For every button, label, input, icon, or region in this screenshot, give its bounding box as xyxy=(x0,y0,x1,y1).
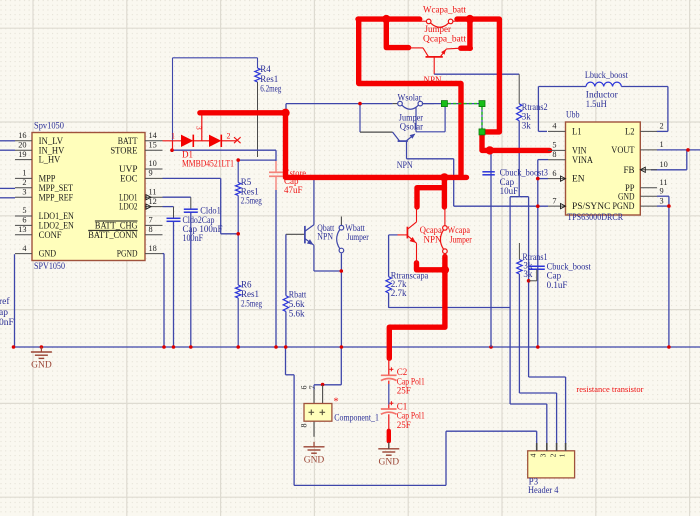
svg-text:R4: R4 xyxy=(260,64,271,74)
svg-text:15: 15 xyxy=(149,140,157,149)
svg-text:Wcapa_batt: Wcapa_batt xyxy=(423,5,466,15)
svg-text:0.1uF: 0.1uF xyxy=(547,280,568,290)
svg-text:NPN: NPN xyxy=(424,235,443,245)
svg-text:Rbatt: Rbatt xyxy=(289,289,307,299)
svg-text:NPN: NPN xyxy=(317,232,333,242)
svg-text:9: 9 xyxy=(660,186,664,195)
svg-text:EOC: EOC xyxy=(120,175,137,185)
svg-text:Cldo1: Cldo1 xyxy=(200,206,221,216)
svg-text:Qcapa_batt: Qcapa_batt xyxy=(423,33,467,43)
svg-text:20: 20 xyxy=(18,140,26,149)
svg-text:0nF: 0nF xyxy=(0,318,14,328)
svg-text:R6: R6 xyxy=(241,280,252,290)
svg-text:6.2meg: 6.2meg xyxy=(260,84,281,94)
svg-text:MPP_REF: MPP_REF xyxy=(39,193,74,203)
svg-text:3k: 3k xyxy=(523,269,533,279)
svg-text:1: 1 xyxy=(22,169,26,178)
svg-text:STORE: STORE xyxy=(110,146,137,156)
svg-text:16: 16 xyxy=(18,131,26,140)
svg-text:PS/SYNC: PS/SYNC xyxy=(572,202,610,212)
svg-text:Jumper: Jumper xyxy=(450,234,472,244)
svg-text:GND: GND xyxy=(39,250,57,260)
svg-text:18: 18 xyxy=(149,244,157,253)
svg-text:PGND: PGND xyxy=(117,250,138,260)
svg-text:6: 6 xyxy=(552,169,556,178)
svg-text:9: 9 xyxy=(149,169,153,178)
svg-text:7: 7 xyxy=(308,385,317,389)
svg-text:GND: GND xyxy=(31,361,52,371)
svg-text:7: 7 xyxy=(552,196,556,205)
svg-text:10: 10 xyxy=(149,159,157,168)
svg-text:NPN: NPN xyxy=(424,75,443,85)
svg-text:10: 10 xyxy=(660,160,668,169)
svg-text:3: 3 xyxy=(539,453,548,457)
svg-text:2: 2 xyxy=(548,453,557,457)
svg-text:100nF: 100nF xyxy=(183,234,204,244)
svg-text:TPS63000DRCR: TPS63000DRCR xyxy=(567,213,624,223)
svg-text:FB: FB xyxy=(624,166,635,176)
svg-text:Qsolar: Qsolar xyxy=(400,123,424,133)
svg-text:1.5uH: 1.5uH xyxy=(586,100,607,110)
svg-text:6: 6 xyxy=(22,216,26,225)
svg-text:VINA: VINA xyxy=(572,156,593,166)
svg-text:*: * xyxy=(334,397,339,408)
svg-text:1: 1 xyxy=(557,453,566,457)
svg-text:LDO2: LDO2 xyxy=(119,203,138,213)
svg-text:3: 3 xyxy=(22,187,26,196)
svg-text:3k: 3k xyxy=(522,120,532,130)
svg-text:Component_1: Component_1 xyxy=(334,413,379,423)
svg-text:Lbuck_boost: Lbuck_boost xyxy=(585,71,628,81)
svg-text:L_HV: L_HV xyxy=(39,156,61,166)
svg-text:GND: GND xyxy=(304,455,325,465)
svg-text:2.5meg: 2.5meg xyxy=(241,196,262,206)
svg-text:resistance transistor: resistance transistor xyxy=(576,384,643,394)
svg-text:2: 2 xyxy=(22,178,26,187)
svg-text:8: 8 xyxy=(149,225,153,234)
svg-text:10uF: 10uF xyxy=(500,186,519,196)
svg-text:Jumper: Jumper xyxy=(425,24,452,34)
svg-text:5: 5 xyxy=(552,141,556,150)
svg-text:Ubb: Ubb xyxy=(566,110,580,120)
svg-text:L2: L2 xyxy=(625,128,635,138)
svg-text:25F: 25F xyxy=(397,386,411,396)
svg-text:5.6k: 5.6k xyxy=(289,308,305,318)
svg-text:2.5meg: 2.5meg xyxy=(241,299,262,309)
svg-text:SPV1050: SPV1050 xyxy=(34,262,65,272)
svg-text:ap: ap xyxy=(0,308,8,318)
svg-text:CONF: CONF xyxy=(39,231,62,241)
svg-text:Spv1050: Spv1050 xyxy=(34,122,64,132)
svg-text:Header 4: Header 4 xyxy=(528,485,559,495)
svg-text:19: 19 xyxy=(18,150,26,159)
svg-text:7: 7 xyxy=(149,216,153,225)
svg-text:Res1: Res1 xyxy=(260,74,278,84)
svg-text:5: 5 xyxy=(22,206,26,215)
svg-text:25F: 25F xyxy=(397,420,411,430)
svg-text:14: 14 xyxy=(149,131,158,140)
svg-text:4: 4 xyxy=(529,453,538,457)
svg-text:6: 6 xyxy=(300,386,309,390)
svg-text:1: 1 xyxy=(171,132,175,141)
svg-text:VOUT: VOUT xyxy=(611,146,634,156)
svg-text:BATT_CONN: BATT_CONN xyxy=(88,231,138,241)
svg-text:47uF: 47uF xyxy=(284,185,303,195)
svg-text:2: 2 xyxy=(227,132,231,141)
svg-text:Jumper: Jumper xyxy=(347,232,369,242)
svg-text:2: 2 xyxy=(660,122,664,131)
svg-text:GND: GND xyxy=(618,192,635,202)
svg-text:ref: ref xyxy=(0,296,10,307)
svg-text:Wsolar: Wsolar xyxy=(398,93,423,103)
svg-text:EN: EN xyxy=(572,175,585,185)
svg-text:2.7k: 2.7k xyxy=(391,288,407,298)
svg-text:L1: L1 xyxy=(572,128,582,138)
svg-text:13: 13 xyxy=(18,225,26,234)
svg-text:8: 8 xyxy=(552,150,556,159)
svg-text:11: 11 xyxy=(149,187,157,196)
svg-text:12: 12 xyxy=(149,197,157,206)
svg-text:GND: GND xyxy=(379,457,400,467)
svg-text:3: 3 xyxy=(195,126,204,130)
svg-text:1: 1 xyxy=(660,140,664,149)
svg-text:MMBD4521LT1: MMBD4521LT1 xyxy=(182,158,234,168)
svg-text:NPN: NPN xyxy=(397,161,413,171)
svg-text:PGND: PGND xyxy=(613,202,635,212)
svg-text:Qcapa: Qcapa xyxy=(420,225,442,235)
svg-text:3: 3 xyxy=(660,196,664,205)
svg-text:8: 8 xyxy=(300,424,309,428)
